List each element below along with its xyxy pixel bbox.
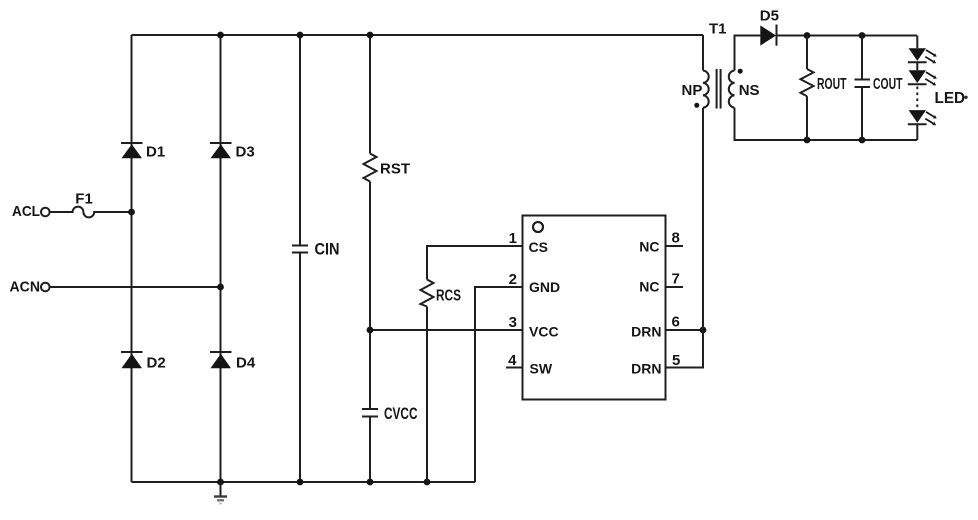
LED 2 <box>908 70 927 84</box>
svg-text:D3: D3 <box>236 144 255 161</box>
wire: ACN to bridge <box>50 286 221 288</box>
LED 3 light arrows <box>925 112 937 125</box>
stub: pin7 NC <box>666 286 684 288</box>
svg-text:LED: LED <box>935 90 966 107</box>
svg-text:4: 4 <box>508 352 517 369</box>
svg-text:GND: GND <box>529 279 560 295</box>
wire: ROUT branch upper <box>806 36 808 70</box>
node: DRN junction <box>700 327 707 334</box>
wire: RST branch upper <box>369 35 371 154</box>
wire: LED string bottom <box>916 124 918 140</box>
svg-text:D1: D1 <box>146 144 165 161</box>
svg-text:DRN: DRN <box>631 361 661 377</box>
wire: NS bottom and output bottom bus <box>735 108 918 140</box>
resistor RCS <box>421 280 434 307</box>
resistor ROUT <box>801 69 814 96</box>
svg-text:CIN: CIN <box>315 240 340 259</box>
capacitor CVCC <box>362 409 378 417</box>
NP polarity dot <box>694 103 699 108</box>
wire: RST to CVCC segment <box>369 182 371 410</box>
svg-text:RCS: RCS <box>436 288 461 305</box>
ground <box>214 482 227 504</box>
capacitor COUT <box>855 80 871 88</box>
svg-text:NP: NP <box>682 82 703 99</box>
resistor RST <box>364 154 377 182</box>
svg-text:ACL: ACL <box>12 203 40 220</box>
LED 1 light arrows <box>925 50 937 63</box>
wire: CIN branch lower <box>299 253 301 483</box>
wire: LED string top <box>916 36 918 49</box>
diode D3 <box>210 143 232 158</box>
wire: dashed LED continuation <box>916 87 918 110</box>
wire: pin3 VCC to CVCC branch <box>370 329 523 331</box>
wire: RCS bottom to ground bus <box>426 307 428 483</box>
wire: D5 cathode to LED string <box>777 35 918 37</box>
svg-text:5: 5 <box>672 352 680 369</box>
wire: COUT branch upper <box>861 36 863 80</box>
wire: CIN branch upper <box>299 35 301 246</box>
LED 2 light arrows <box>925 72 937 85</box>
terminal ACL <box>41 208 50 217</box>
transformer T1 primary winding NP <box>703 71 709 108</box>
transformer T1 secondary winding NS <box>729 71 735 108</box>
NS polarity dot <box>738 69 743 74</box>
node: top bus / D3 leg <box>217 32 224 39</box>
wire: pin1 CS to RCS top <box>427 246 523 280</box>
svg-text:6: 6 <box>672 314 680 331</box>
node: ACN junction <box>217 284 224 291</box>
svg-text:DRN: DRN <box>631 324 661 340</box>
node: top bus / RST <box>367 32 374 39</box>
svg-text:8: 8 <box>672 230 680 247</box>
svg-text:SW: SW <box>530 361 553 377</box>
transformer core <box>717 69 721 109</box>
wire: COUT branch lower <box>861 87 863 140</box>
wire: primary top (bus to NP) <box>702 35 704 71</box>
node: output bottom / ROUT <box>804 137 811 144</box>
wire: LED1 to LED2 <box>916 62 918 70</box>
stub: pin8 NC <box>666 245 684 247</box>
svg-text:NC: NC <box>639 279 659 295</box>
node: bottom bus / RCS <box>424 479 431 486</box>
svg-text:ROUT: ROUT <box>817 76 847 93</box>
svg-text:NC: NC <box>639 239 659 255</box>
svg-text:D5: D5 <box>760 8 779 25</box>
svg-text:CS: CS <box>529 239 548 255</box>
node: ACL junction <box>128 209 135 216</box>
diode D5 <box>760 25 776 46</box>
wire: pin6 DRN to primary <box>666 329 704 331</box>
pin1 indicator circle <box>533 222 543 232</box>
wire: pin5 DRN up to DRN junction <box>666 330 704 368</box>
wire: left bridge leg (D1/D2 column) <box>131 35 133 482</box>
node: bottom bus / ground leg <box>217 479 224 486</box>
svg-text:ACN: ACN <box>10 279 41 296</box>
node: VCC junction <box>367 327 374 334</box>
svg-text:D4: D4 <box>236 355 256 372</box>
svg-text:RST: RST <box>380 161 410 178</box>
svg-text:T1: T1 <box>709 21 727 38</box>
svg-text:3: 3 <box>509 314 517 331</box>
node: output top / ROUT <box>804 32 811 39</box>
terminal ACN <box>41 283 50 292</box>
node: output top / COUT <box>859 32 866 39</box>
wire: bottom ground bus <box>132 481 476 483</box>
svg-text:1: 1 <box>509 230 517 247</box>
LED 1 <box>908 48 927 62</box>
diode D4 <box>210 352 232 368</box>
partial glyph at image edge <box>964 96 967 99</box>
LED 3 <box>908 110 927 124</box>
node: top bus / CIN <box>297 32 304 39</box>
wire: AC top bus <box>132 34 704 36</box>
svg-text:F1: F1 <box>75 191 93 208</box>
node: output bottom / COUT <box>859 137 866 144</box>
wire: pin2 GND down to ground bus <box>475 287 523 482</box>
stub: pin4 SW <box>506 367 523 369</box>
svg-text:7: 7 <box>672 271 680 288</box>
diode D2 <box>121 352 143 368</box>
wire: NS top to D5 anode <box>735 36 761 71</box>
svg-text:2: 2 <box>509 271 517 288</box>
diode D1 <box>121 143 143 158</box>
wire: NP bottom to DRN junction <box>702 108 704 330</box>
wire: ROUT branch lower <box>806 96 808 140</box>
svg-text:D2: D2 <box>147 355 166 372</box>
node: bottom bus / CVCC <box>367 479 374 486</box>
svg-text:COUT: COUT <box>873 76 903 93</box>
wire: second bridge leg (D3/D4 column) <box>220 35 222 482</box>
capacitor CIN <box>292 246 308 253</box>
node: bottom bus / CIN <box>297 479 304 486</box>
svg-text:CVCC: CVCC <box>384 405 418 423</box>
wire: CVCC branch lower <box>369 417 371 483</box>
op-amp U1 (controller IC body) <box>523 216 666 400</box>
svg-text:NS: NS <box>739 82 760 99</box>
svg-text:VCC: VCC <box>529 324 559 340</box>
fuse F1 and wire to bridge <box>50 207 132 218</box>
